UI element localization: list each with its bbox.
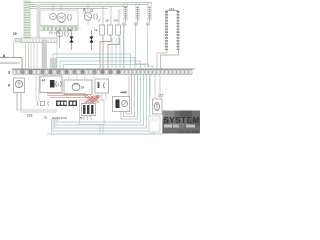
svg-text:121: 121	[158, 94, 164, 98]
svg-text:COD 0191398: COD 0191398	[178, 130, 199, 134]
svg-text:3: 3	[8, 71, 10, 75]
svg-text:17: 17	[98, 18, 101, 22]
svg-text:44: 44	[42, 79, 46, 83]
svg-text:10: 10	[13, 32, 17, 36]
svg-text:SYSTEM: SYSTEM	[164, 116, 200, 125]
svg-text:55: 55	[44, 116, 48, 120]
svg-text:12: 12	[94, 28, 98, 32]
svg-text:2: 2	[58, 83, 60, 87]
svg-text:122: 122	[169, 7, 174, 11]
svg-text:19: 19	[81, 86, 85, 90]
svg-text:119: 119	[27, 114, 33, 118]
svg-text:6: 6	[8, 84, 10, 88]
svg-text:501: 501	[114, 18, 119, 22]
svg-text:8 5. + 75 .: 8 5. + 75 .	[49, 30, 61, 34]
svg-text:75: 75	[68, 28, 72, 32]
svg-text:28: 28	[106, 18, 109, 22]
svg-text:M10M 10 M: M10M 10 M	[52, 116, 67, 120]
